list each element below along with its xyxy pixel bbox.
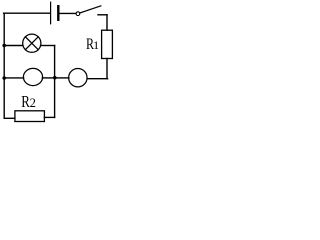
meter circle right (ammeter) xyxy=(69,69,87,87)
node dot B (left rail / middle branch) xyxy=(2,76,6,80)
wire left meter to junction xyxy=(42,77,55,79)
resistor R1 box xyxy=(102,30,113,58)
wire middle (left rail to left meter) xyxy=(4,77,24,79)
switch blade (open) xyxy=(81,6,101,13)
wire lamp right to corner xyxy=(41,45,55,47)
switch pivot circle xyxy=(76,12,80,16)
wire center vertical junction xyxy=(54,46,56,118)
svg-text:1: 1 xyxy=(93,38,99,52)
meter circle left (ammeter) xyxy=(23,68,42,85)
wire R1 bottom down xyxy=(106,59,108,79)
battery short thick plate (negative) xyxy=(57,6,59,20)
wire lamp row left (rail to lamp) xyxy=(4,45,23,47)
wire right rail corner to meter circle right xyxy=(87,78,107,80)
lamp X diagonal 1 xyxy=(25,37,38,50)
node dot C (center junction) xyxy=(53,76,57,80)
wire bottom left (rail corner to R2) xyxy=(4,117,15,119)
svg-text:2: 2 xyxy=(30,96,36,110)
battery long plate (positive) xyxy=(50,2,52,24)
lamp L1 circle xyxy=(23,34,41,52)
wire right rail upper (corner down to R1) xyxy=(106,15,108,30)
wire R2 right to center vertical xyxy=(44,116,54,118)
resistor R2 box xyxy=(15,111,45,122)
wire battery to switch xyxy=(60,12,76,14)
lamp X diagonal 2 xyxy=(25,37,38,50)
wire top horizontal left (rail to battery) xyxy=(4,12,50,14)
node dot A (left rail / lamp branch) xyxy=(2,44,6,48)
left rail vertical xyxy=(3,13,5,118)
wire middle (junction to right meter) xyxy=(55,77,69,79)
wire switch fixed contact to top-right corner xyxy=(98,14,107,16)
